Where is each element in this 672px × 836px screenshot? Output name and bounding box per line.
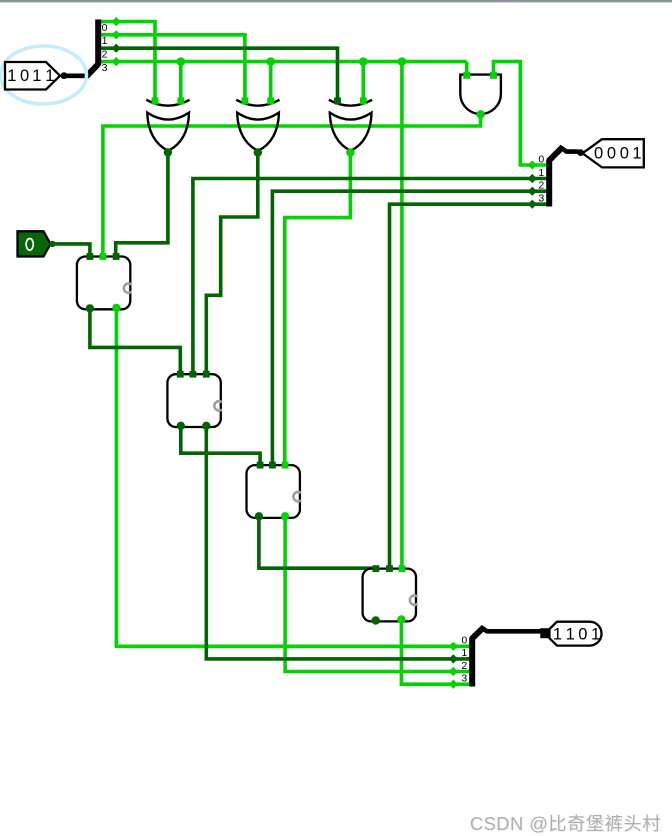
pin box3 in3 pad xyxy=(282,462,289,469)
node diamond A1 xyxy=(528,174,537,183)
box U8 anchor arc xyxy=(410,595,418,604)
svg-text:3: 3 xyxy=(102,62,108,74)
AND gate U4 xyxy=(460,74,501,115)
node diamond S0 xyxy=(449,642,458,651)
node box4 sum-out dot xyxy=(397,615,405,623)
wire row3 stub to XOR3 right input xyxy=(361,62,365,100)
node XOR1 output dot xyxy=(164,148,172,156)
pin box3 in1 pad xyxy=(257,462,264,469)
wire input-A bit2 row to box3 in2 xyxy=(272,191,546,465)
svg-text:1: 1 xyxy=(32,67,41,85)
node XOR3 output dot xyxy=(346,148,354,156)
wire splitter-B bit2 row to XOR3 left input xyxy=(100,48,338,100)
svg-text:0: 0 xyxy=(594,145,603,163)
wire box3 sum to output splitter bit2 xyxy=(285,516,470,671)
pin box4 in3 pad xyxy=(399,565,406,572)
splitter SP3 diagonal leg xyxy=(472,627,484,639)
svg-text:1: 1 xyxy=(7,67,16,85)
pin XOR3 in2 pad xyxy=(360,97,367,104)
pin box3 in2 pad xyxy=(269,462,276,469)
wire XOR2 output staircase to box2 in3 xyxy=(206,153,257,375)
node diamond S2 xyxy=(449,667,458,676)
XOR gate U3 upper arc xyxy=(329,100,372,106)
op-amp? no: XOR gate U1 upper arc xyxy=(146,100,189,106)
wire row3 stub to XOR1 right input xyxy=(179,62,183,100)
wire row3 stub to XOR2 right input xyxy=(269,62,273,100)
wire splitter-B bit0 row xyxy=(100,22,155,100)
wire box1 carry to box2 in1 xyxy=(90,308,180,374)
svg-text:2: 2 xyxy=(538,180,544,192)
wire row3 branch down to box4 in3 xyxy=(400,62,404,569)
pin box1 in2 pad xyxy=(100,253,107,260)
full-adder box U5 xyxy=(77,257,130,310)
box U6 anchor arc xyxy=(214,401,222,410)
node diamond B2 xyxy=(112,44,121,53)
node box1 carry-out dot xyxy=(86,304,94,312)
watermark xyxy=(470,810,661,836)
svg-text:3: 3 xyxy=(538,193,544,205)
wire box3 carry to box4 in1 xyxy=(259,516,376,568)
svg-text:0: 0 xyxy=(102,22,108,34)
node row3/XOR1 junction xyxy=(177,57,186,66)
node input C0 tip dot xyxy=(49,241,55,247)
box U7 anchor arc xyxy=(293,492,301,501)
wire box4 sum to output splitter bit3 xyxy=(401,620,470,685)
svg-text:2: 2 xyxy=(461,660,467,672)
full-adder box U7 xyxy=(247,465,300,518)
svg-text:1: 1 xyxy=(538,167,544,179)
full-adder box U6 xyxy=(167,374,220,427)
XOR gate U3 body xyxy=(330,113,372,151)
node row3/box4 junction xyxy=(398,57,407,66)
value label input C0 xyxy=(26,239,33,251)
svg-text:1: 1 xyxy=(461,647,467,659)
node XOR2 output dot xyxy=(254,148,262,156)
svg-text:0: 0 xyxy=(578,625,587,643)
box U5 anchor arc xyxy=(124,283,132,292)
node diamond S1 xyxy=(449,654,458,663)
wire box2 sum to output splitter bit1 xyxy=(206,426,470,659)
wire splitter-B bit3 row to AND input A xyxy=(100,60,467,64)
XOR gate U1 body xyxy=(147,113,189,151)
node output S tip nub xyxy=(540,628,548,638)
wire input A to splitter xyxy=(561,148,578,152)
node box3 carry-out dot xyxy=(255,512,263,520)
node AND output dot xyxy=(476,110,484,118)
svg-text:1: 1 xyxy=(553,625,562,643)
pin box4 in1 pad xyxy=(373,565,380,572)
pin box1 in3 pad xyxy=(113,253,120,260)
wire input-A bit1 row to box2 in2 xyxy=(193,179,547,375)
wire input B to splitter xyxy=(64,74,90,79)
splitter SP2 diagonal leg xyxy=(549,147,563,161)
top gray gradient bar xyxy=(0,0,672,4)
wire AND output to box1 in2 xyxy=(103,114,481,257)
node diamond A0 xyxy=(528,160,537,169)
pin XOR3 in1 pad xyxy=(334,97,341,104)
wire box2 carry to box3 in1 xyxy=(181,426,260,466)
wire XOR1 output to box1 in3 xyxy=(116,153,168,258)
pin box2 in2 pad xyxy=(190,371,197,378)
XOR gate U2 upper arc xyxy=(236,100,279,106)
node diamond S3 xyxy=(449,680,458,689)
pin XOR2 in2 pad xyxy=(267,97,274,104)
svg-text:0: 0 xyxy=(461,635,467,647)
pin AND in1 pad xyxy=(463,72,470,79)
wire AND right input from input-A bit0 xyxy=(494,62,547,165)
wire row3 stub into AND left input xyxy=(465,62,469,78)
svg-text:2: 2 xyxy=(102,49,108,61)
pin box1 in1 pad xyxy=(87,253,94,260)
svg-text:1: 1 xyxy=(45,67,54,85)
node diamond A2 xyxy=(528,187,537,196)
node row3/XOR2 junction xyxy=(266,57,275,66)
splitter SP1 (input B) spine xyxy=(95,20,101,66)
node box4 carry-out dot xyxy=(372,616,380,624)
pin XOR1 in1 pad xyxy=(152,97,159,104)
node input A tip dot xyxy=(577,149,584,156)
svg-text:0: 0 xyxy=(20,67,29,85)
splitter SP1 diagonal leg xyxy=(87,64,99,76)
wire XOR3 output staircase to box3 in3 xyxy=(285,153,351,466)
svg-text:0: 0 xyxy=(538,153,544,165)
XOR gate U2 body xyxy=(237,113,279,151)
pin AND in2 pad xyxy=(490,72,497,79)
pin box2 in3 pad xyxy=(203,371,210,378)
splitter SP3 (output S) spine xyxy=(469,638,475,687)
node diamond A3 xyxy=(528,200,537,209)
node input B tip dot xyxy=(61,72,68,79)
wire splitter-B bit1 row xyxy=(100,35,245,100)
wire input-A bit3 row to box4 in2 xyxy=(390,204,547,569)
wire input pin 0 to box1 in1 xyxy=(52,244,90,257)
svg-text:0: 0 xyxy=(607,145,616,163)
node row3/XOR3 junction xyxy=(359,57,368,66)
node box2 sum-out dot xyxy=(202,422,210,430)
node box1 sum-out dot xyxy=(112,304,120,312)
splitter SP2 (input A) spine xyxy=(546,160,552,207)
svg-text:1: 1 xyxy=(591,625,600,643)
wire output S to splitter xyxy=(483,628,542,631)
pin XOR1 in2 pad xyxy=(177,97,184,104)
full-adder box U8 xyxy=(363,569,416,622)
svg-text:0: 0 xyxy=(620,145,629,163)
pin XOR2 in1 pad xyxy=(242,97,249,104)
node diamond B3 xyxy=(112,57,121,66)
svg-text:1: 1 xyxy=(632,145,641,163)
svg-text:3: 3 xyxy=(461,673,467,685)
pin box4 in2 pad xyxy=(386,565,393,572)
node diamond B1 xyxy=(112,30,121,39)
node box3 sum-out dot xyxy=(281,512,289,520)
node diamond B0 xyxy=(112,17,121,26)
svg-text:1: 1 xyxy=(566,625,575,643)
svg-text:1: 1 xyxy=(102,35,108,47)
pin box2 in1 pad xyxy=(177,371,184,378)
wire box1 sum down to output splitter bit0 xyxy=(116,308,470,646)
node box2 carry-out dot xyxy=(177,422,185,430)
